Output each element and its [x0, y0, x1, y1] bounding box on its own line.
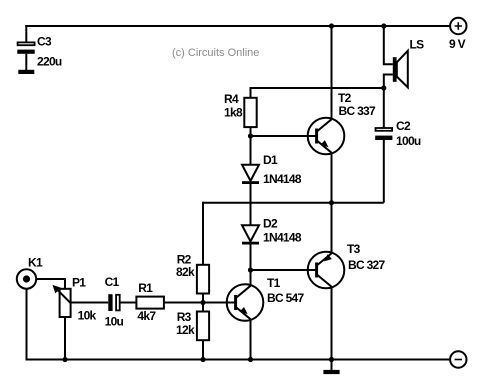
junction dot top rail / speaker	[381, 23, 386, 28]
terminal -9V	[450, 351, 466, 367]
wire P1 bottom to rail	[64, 317, 66, 360]
svg-text:R1: R1	[138, 281, 153, 295]
ground bar under C3	[18, 70, 34, 74]
junction dot speaker/C2/R4 bootstrap node	[381, 85, 386, 90]
svg-text:T3: T3	[347, 242, 361, 256]
svg-text:K1: K1	[28, 256, 43, 270]
resistor R1	[136, 297, 164, 309]
junction dot R3 bottom / rail	[200, 357, 205, 362]
wire R2 bottom to R3 top	[202, 294, 204, 312]
wire R3 bottom to rail	[202, 340, 204, 359]
wire T3 emitter up to output node	[331, 203, 333, 254]
diode D2	[242, 225, 259, 244]
diode D1	[242, 165, 259, 184]
wire T1 emitter to bottom rail	[250, 319, 252, 360]
junction dot R2/R3/T1 base	[200, 300, 205, 305]
wire D1 to D2	[250, 184, 252, 225]
wire T2 base	[251, 135, 317, 137]
svg-text:T1: T1	[267, 276, 281, 290]
svg-text:4k7: 4k7	[137, 309, 156, 323]
wire P1 wiper to C1	[71, 302, 109, 304]
connector K1	[17, 269, 36, 288]
svg-text:T2: T2	[338, 91, 352, 105]
wire output node horizontal	[203, 202, 384, 204]
transistor T2	[308, 118, 345, 155]
svg-text:C3: C3	[37, 35, 52, 49]
svg-text:D2: D2	[263, 217, 278, 231]
wire C1 to R1	[121, 302, 137, 304]
wire T2 emitter to output node	[331, 153, 333, 203]
junction dot D2/T3 base/T1 collector	[248, 267, 253, 272]
svg-text:BC 327: BC 327	[348, 258, 386, 272]
svg-text:1N4148: 1N4148	[263, 231, 302, 245]
svg-text:D1: D1	[263, 153, 278, 167]
wire T3 collector to bottom rail	[331, 287, 333, 360]
svg-text:LS: LS	[410, 38, 425, 52]
wire top +9V rail	[25, 25, 450, 27]
svg-text:220u: 220u	[37, 55, 62, 69]
junction dot T3 collector / ground / rail	[329, 357, 334, 362]
wire K1 ground down	[26, 289, 28, 360]
wire T1 base from R2/R3 node	[203, 302, 236, 304]
wire T3 base	[251, 269, 317, 271]
resistor R4	[244, 98, 256, 127]
junction dot T1 emitter / rail	[248, 357, 253, 362]
capacitor C3	[17, 42, 34, 70]
svg-text:C2: C2	[396, 119, 411, 133]
terminal +9V	[450, 18, 466, 34]
svg-text:BC 547: BC 547	[267, 291, 305, 305]
junction dot P1 bottom / rail	[62, 357, 67, 362]
svg-text:BC 337: BC 337	[339, 104, 377, 118]
wire R1 to R2/R3 node	[164, 302, 203, 304]
potentiometer P1	[53, 285, 71, 317]
resistor R2	[197, 265, 209, 294]
svg-text:P1: P1	[72, 275, 86, 289]
junction dot T2 emitter / output	[329, 200, 334, 205]
resistor R3	[197, 312, 209, 341]
wire K1 to P1 top	[36, 279, 65, 289]
ground symbol	[323, 360, 339, 375]
svg-text:100u: 100u	[396, 134, 421, 148]
wire T2 collector to rail	[331, 26, 333, 120]
svg-text:9 V: 9 V	[449, 37, 466, 51]
wire D2 to T3 base node	[250, 245, 252, 271]
transistor T1	[227, 284, 264, 321]
junction dot R4/D1/T2 base	[248, 133, 253, 138]
wire C3 top drop from rail	[25, 25, 27, 42]
loudspeaker LS	[393, 51, 408, 88]
junction dot top rail / T2 collector	[329, 23, 334, 28]
wire speaker top terminal	[384, 26, 393, 64]
wire R4 bottom to D1	[250, 127, 252, 165]
capacitor C2	[375, 128, 392, 203]
svg-text:1k8: 1k8	[224, 106, 243, 120]
svg-text:C1: C1	[105, 275, 120, 289]
svg-text:10k: 10k	[78, 308, 97, 322]
svg-text:1N4148: 1N4148	[263, 172, 302, 186]
capacitor C1	[108, 294, 119, 311]
transistor T3	[308, 252, 345, 289]
wire speaker bottom terminal	[384, 75, 393, 89]
svg-text:12k: 12k	[176, 323, 195, 337]
wire feedback column to R2	[202, 202, 204, 265]
wire bootstrap R4 top to speaker node	[251, 88, 384, 98]
svg-text:82k: 82k	[176, 265, 195, 279]
wire T1 collector up to diode node	[250, 270, 252, 286]
svg-text:(c) Circuits Online: (c) Circuits Online	[172, 47, 259, 59]
wire bottom ground rail	[26, 359, 451, 361]
svg-text:R4: R4	[224, 92, 239, 106]
wire C2 top drop from bootstrap node	[383, 88, 385, 127]
svg-text:10u: 10u	[105, 314, 124, 328]
